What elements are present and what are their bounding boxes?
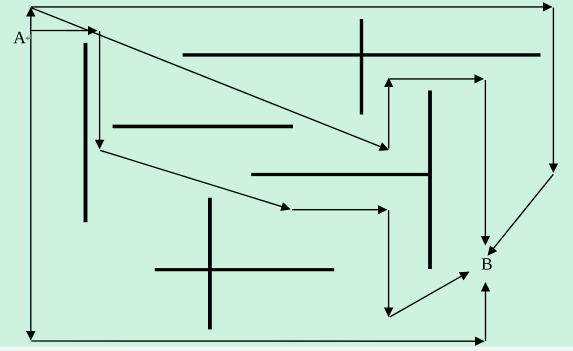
- wall bar bottom cross horizontal: [155, 268, 335, 271]
- wall bar T vertical right: [428, 91, 432, 270]
- wall bar top cross horizontal: [183, 53, 541, 56]
- arrow up to B from bottom: [485, 283, 487, 341]
- arrow A down: [30, 37, 32, 340]
- arrow long diagonal: [32, 8, 388, 150]
- wall bar T horizontal: [251, 173, 429, 176]
- arrow A right: [31, 30, 97, 32]
- wall bar bottom cross vertical: [208, 198, 212, 330]
- arrow down from A corridor: [99, 31, 101, 148]
- arrow diagonal to B from top right: [488, 174, 553, 255]
- wall bar middle horizontal: [113, 125, 293, 129]
- arrow right side down: [552, 8, 554, 172]
- arrow up right of diagonal end: [388, 79, 390, 149]
- wall bar left vertical: [84, 43, 88, 222]
- arrow right at top middle: [390, 78, 484, 80]
- return mark after A: [25, 35, 30, 41]
- label B: [482, 258, 492, 269]
- arrow middle right: [292, 209, 386, 211]
- arrow diagonal middle: [100, 150, 290, 209]
- arrow bottom right: [31, 340, 483, 342]
- arrow down to B: [484, 80, 486, 245]
- wall bar top cross vertical: [360, 19, 363, 115]
- label A: [13, 32, 25, 43]
- bottom light strip: [0, 346, 573, 351]
- arrow top right: [31, 6, 552, 8]
- arrow diagonal up to B: [390, 272, 469, 317]
- arrow middle down: [388, 210, 390, 316]
- arrow A up: [30, 8, 32, 37]
